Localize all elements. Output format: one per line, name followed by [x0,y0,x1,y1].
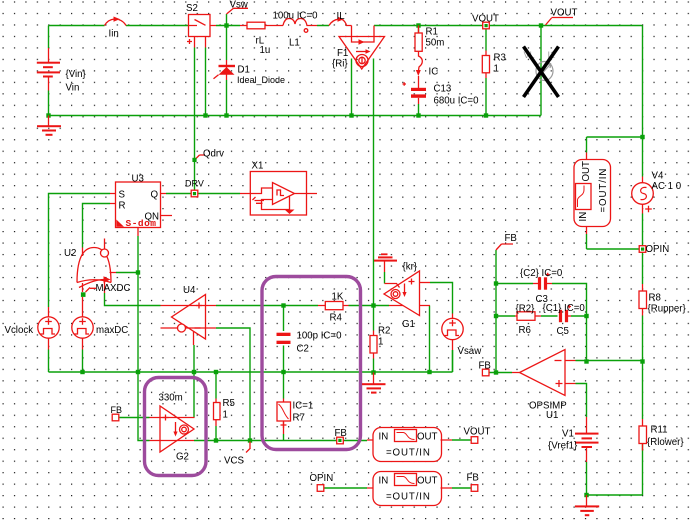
svg-text:D1: D1 [238,65,250,76]
svg-text:IN: IN [379,432,389,443]
svg-text:G2: G2 [176,452,189,463]
svg-text:VOUT: VOUT [551,8,578,19]
svg-text:Vsw: Vsw [230,0,249,11]
svg-text:G1: G1 [402,319,415,330]
svg-text:{kr}: {kr} [403,262,418,273]
svg-text:50m: 50m [426,38,445,49]
svg-text:S: S [119,190,126,201]
svg-text:Vin: Vin [66,83,80,94]
svg-text:R5: R5 [223,398,235,409]
svg-text:S-dom: S-dom [126,218,157,229]
svg-text:IL: IL [337,11,346,22]
svg-text:R3: R3 [494,53,506,64]
svg-text:=OUT/IN: =OUT/IN [386,448,431,459]
svg-text:IC=1: IC=1 [293,401,314,412]
svg-text:VOUT: VOUT [464,427,491,438]
svg-text:U3: U3 [132,174,144,185]
svg-text:OUT: OUT [581,161,592,182]
svg-text:X1: X1 [252,161,264,172]
svg-text:R4: R4 [330,313,343,324]
svg-text:Vclock: Vclock [5,325,34,336]
svg-text:R7: R7 [293,413,305,424]
svg-text:1K: 1K [332,292,344,303]
svg-text:VCS: VCS [224,456,244,467]
svg-text:FB: FB [111,405,123,415]
svg-text:{C2} IC=0: {C2} IC=0 [520,268,563,279]
svg-text:R6: R6 [519,325,531,336]
svg-text:C5: C5 [557,326,569,337]
svg-text:V1: V1 [562,429,574,440]
svg-text:FB: FB [335,428,347,439]
svg-text:R2: R2 [378,326,390,337]
svg-text:F1: F1 [337,48,348,59]
svg-text:AC 1 0: AC 1 0 [652,181,682,192]
svg-text:1: 1 [378,337,383,348]
svg-text:100u IC=0: 100u IC=0 [273,11,319,22]
svg-text:{Vref1}: {Vref1} [548,441,578,452]
svg-text:OUT: OUT [417,476,438,487]
svg-text:R: R [119,201,126,212]
svg-text:680u IC=0: 680u IC=0 [434,96,480,107]
svg-text:IN: IN [379,476,389,487]
svg-text:1u: 1u [260,45,271,56]
svg-text:R1: R1 [426,27,438,38]
svg-text:U2: U2 [64,248,76,259]
svg-text:FB: FB [505,233,517,244]
svg-text:FB: FB [479,361,491,372]
svg-text:OUT: OUT [417,432,438,443]
svg-text:Vsaw: Vsaw [458,346,483,357]
svg-text:1: 1 [223,410,228,421]
svg-text:{C1} IC=0: {C1} IC=0 [543,303,586,314]
svg-text:IC: IC [429,67,439,78]
svg-text:R8: R8 [649,293,661,304]
svg-text:C13: C13 [434,84,452,95]
svg-text:U1: U1 [546,410,558,421]
svg-text:Q: Q [151,190,159,201]
svg-text:Qdrv: Qdrv [203,149,224,160]
svg-text:OPIN: OPIN [310,473,334,484]
svg-text:VOUT: VOUT [472,14,499,25]
svg-text:C2: C2 [297,344,309,355]
svg-text:330m: 330m [159,393,183,404]
svg-text:R11: R11 [651,425,668,436]
svg-text:Iin: Iin [109,29,119,40]
svg-text:V4: V4 [652,171,664,182]
svg-text:100p IC=0: 100p IC=0 [297,331,343,342]
svg-text:L1: L1 [289,38,300,49]
svg-text:OPIN: OPIN [646,244,670,255]
svg-text:{Rlower}: {Rlower} [647,437,684,448]
svg-text:IN: IN [578,212,589,222]
svg-text:{Ri}: {Ri} [332,59,348,70]
svg-text:1: 1 [494,64,499,75]
svg-text:FB: FB [467,473,479,484]
svg-text:{Vin}: {Vin} [66,69,87,80]
svg-text:{Rupper}: {Rupper} [648,304,687,315]
svg-text:Ideal_Diode: Ideal_Diode [237,75,285,85]
svg-text:U4: U4 [183,285,196,296]
svg-text:=OUT/IN: =OUT/IN [598,168,609,213]
svg-text:{R2}: {R2} [516,304,536,315]
svg-text:S2: S2 [186,3,198,14]
svg-text:MAXDC: MAXDC [96,283,131,294]
svg-text:maxDC: maxDC [96,325,128,336]
svg-text:=OUT/IN: =OUT/IN [386,492,431,503]
svg-text:DRV: DRV [185,179,204,189]
